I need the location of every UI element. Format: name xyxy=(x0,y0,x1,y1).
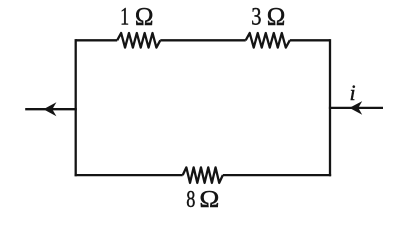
resistor R2 3 ohm xyxy=(246,33,290,48)
wire right vertical xyxy=(329,39,331,176)
resistor R1 1 ohm xyxy=(117,33,160,48)
label 8 ohm value xyxy=(186,187,219,213)
label 3 ohm value xyxy=(251,3,285,30)
svg-text:i: i xyxy=(350,80,356,105)
svg-text:Ω: Ω xyxy=(199,187,219,212)
svg-text:1: 1 xyxy=(120,3,129,30)
wire left current stub xyxy=(25,108,77,110)
svg-text:3: 3 xyxy=(251,3,261,30)
wire right current stub xyxy=(329,107,383,109)
wire top-middle (R1 to R2) xyxy=(160,39,245,41)
svg-text:8: 8 xyxy=(186,187,195,212)
wire bottom-right (R3 to right corner) xyxy=(223,174,331,176)
arrowhead right current xyxy=(349,101,362,115)
wire bottom-left (left corner to R3) xyxy=(75,174,183,176)
wire top-right (R2 to right corner) xyxy=(290,39,330,41)
svg-text:Ω: Ω xyxy=(135,3,154,30)
svg-text:Ω: Ω xyxy=(267,3,286,30)
label 1 ohm value xyxy=(120,3,153,30)
wire top-left (left corner to R1) xyxy=(76,39,118,41)
resistor R3 8 ohm xyxy=(183,167,223,183)
wire left vertical xyxy=(75,39,77,176)
arrowhead left current xyxy=(43,102,56,116)
